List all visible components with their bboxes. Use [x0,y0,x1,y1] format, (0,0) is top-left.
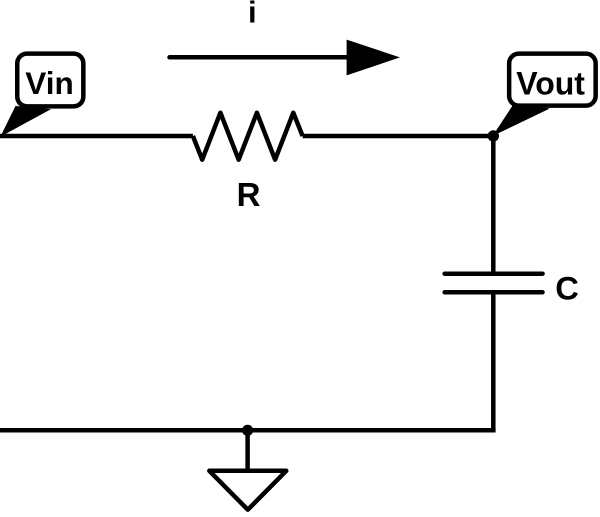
svg-text:Vin: Vin [25,65,73,101]
wire ground stub [245,430,250,471]
svg-text:C: C [555,269,579,306]
wire top-left (Vin to resistor) [0,134,193,139]
node Vout callout tail [494,107,549,135]
ground [209,471,286,510]
node Vin callout box [17,54,83,107]
wire bottom ground rail [0,428,496,433]
wire Vout node to capacitor [491,136,496,274]
node Vin callout tail [2,107,50,136]
wire capacitor to bottom rail [491,292,496,432]
svg-text:R: R [237,176,261,213]
resistor R [193,113,303,160]
capacitor C bottom plate [445,290,543,295]
wire resistor to Vout node [303,134,494,139]
svg-text:Vout: Vout [516,65,585,101]
node Vout junction dot [488,130,499,141]
svg-text:i: i [248,0,257,30]
current arrow i [170,40,401,76]
node ground junction dot [242,425,253,436]
capacitor C top plate [445,271,543,276]
node Vout callout box [509,54,596,106]
